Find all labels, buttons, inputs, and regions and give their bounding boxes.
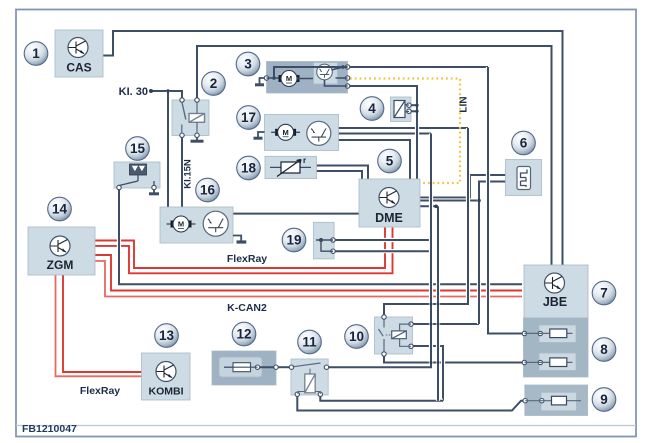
fuse 8a plate (539, 325, 576, 343)
pins connector19 (331, 238, 335, 242)
wire FlexRay ZGM-DME line 1 (95, 228, 385, 269)
wire box3 internal motor link (267, 67, 348, 79)
relay box 2 (172, 100, 209, 136)
svg-text:M: M (178, 220, 184, 229)
number ball 15 (126, 137, 150, 161)
wire LIN bus (350, 79, 460, 184)
wire CAS to JBE top outer (103, 31, 563, 265)
svg-text:9: 9 (600, 392, 608, 407)
node crossing dots trunk x438 (437, 303, 440, 306)
fuse carrier box 8 (524, 318, 589, 377)
wire box4 upper tap (409, 104, 417, 106)
motor M in box17 (271, 124, 300, 140)
relay 11 internals (293, 363, 321, 394)
node box3 internal top (272, 76, 276, 80)
number ball 6 (512, 131, 536, 155)
wire lead into fuse 8a (522, 332, 526, 334)
ground at box16 right (233, 236, 241, 242)
number ball 10 (345, 325, 369, 349)
KOMBI box (142, 353, 191, 400)
pins box3 (264, 76, 268, 80)
number ball 12 (232, 322, 256, 346)
wire box3 bottom trunk to DME top (348, 86, 417, 179)
pins fuse12 (255, 365, 259, 369)
module box 3 inner panel (314, 63, 338, 85)
number ball 14 (48, 197, 72, 221)
pins relay 2 (180, 98, 184, 102)
svg-text:K-CAN2: K-CAN2 (227, 302, 267, 314)
node W2 riser junction (477, 199, 481, 203)
svg-text:17: 17 (241, 110, 256, 125)
node box3 right junction (341, 65, 345, 69)
svg-text:KI. 30: KI. 30 (119, 86, 148, 98)
switch in box15 (119, 175, 154, 186)
svg-text:DME: DME (375, 211, 403, 225)
svg-text:14: 14 (52, 202, 68, 217)
relay box 10 (375, 317, 413, 354)
svg-text:10: 10 (349, 329, 364, 344)
ECU icon JBE (545, 273, 565, 293)
ECU icon CAS (68, 38, 88, 58)
switch box 15 (114, 162, 160, 188)
rheostat in box18 (270, 160, 311, 177)
wire relay11 bottom-left to fuse 9 (297, 395, 523, 411)
svg-text:1: 1 (32, 46, 40, 61)
svg-text:15: 15 (130, 141, 146, 156)
svg-text:FlexRay: FlexRay (80, 385, 120, 397)
connector triangles box15 (130, 164, 147, 175)
relay 2 internals (182, 102, 205, 134)
node box19 internal (319, 238, 323, 242)
wire trunk riser box6 lower (479, 182, 506, 325)
ground at box15 (153, 188, 155, 193)
wire FlexRay ZGM-KOMBI line 1 (56, 275, 142, 376)
pins fuse 9 (523, 399, 527, 403)
wire KI.15N relay2 to box16 (180, 136, 184, 208)
wire K-CAN2 line 2 (95, 261, 522, 297)
wire relay11 bottom-right run (320, 395, 443, 401)
wire DME W3 stub (418, 204, 438, 208)
ZGM box (28, 227, 95, 275)
wire box4 lower tap (409, 110, 417, 112)
wire trunk H2 riser to relay11 switch (327, 134, 432, 368)
fuse 9 plate (541, 392, 577, 411)
motor M in box16 (167, 216, 196, 232)
connector fork in box19 (316, 240, 333, 251)
wire DME W1 to box6 upper (418, 175, 506, 198)
number ball 5 (378, 149, 402, 173)
svg-text:12: 12 (236, 327, 251, 342)
wire trunk DME W3 down (436, 206, 440, 400)
svg-text:FB1210047: FB1210047 (22, 423, 77, 435)
ground at box3 left (260, 78, 267, 84)
number ball 19 (282, 228, 306, 252)
rheostat box 18 (265, 156, 317, 178)
throttle icon in box16 (203, 211, 228, 236)
wire box18 lower to DME top (317, 171, 363, 179)
svg-text:M: M (286, 74, 292, 83)
svg-text:KI.15N: KI.15N (183, 159, 194, 189)
number ball 4 (360, 97, 384, 121)
node KI.30 branch (166, 89, 170, 93)
wire fuse12 to relay11 (276, 365, 291, 369)
number ball 17 (237, 106, 261, 130)
number ball 11 (298, 330, 322, 354)
box name labels (47, 61, 568, 398)
pins relay11 (289, 365, 293, 369)
wire connector19 lower tap (334, 249, 431, 253)
number ball 1 (24, 42, 48, 66)
pins fuse 8b (522, 360, 526, 364)
wire lead into fuse 9 (522, 400, 527, 402)
wire K-CAN2 line 1 (95, 255, 522, 291)
relay box 11 (291, 359, 328, 395)
wire box3 top horizontal (274, 67, 488, 78)
svg-text:5: 5 (386, 154, 394, 169)
wire box16 to DME left (233, 212, 359, 216)
number ball 3 (236, 52, 260, 76)
node crossing dots trunk x431 (430, 303, 433, 306)
wire box18 upper to DME top (317, 166, 369, 180)
svg-text:6: 6 (520, 136, 528, 151)
node DME W3 corner (434, 205, 438, 209)
svg-text:3: 3 (244, 57, 252, 72)
relay 10 internals (379, 320, 412, 352)
wire lead into fuse 8b (522, 361, 526, 363)
DME box (359, 179, 420, 227)
CAS box U1 (55, 30, 103, 77)
svg-text:M: M (282, 128, 288, 137)
svg-text:ZGM: ZGM (47, 258, 74, 272)
connector box 19 (314, 222, 335, 259)
motor M in box3 (279, 71, 300, 87)
wire relay2 to JBE top inner (197, 46, 552, 265)
ground at relay 2 (196, 136, 198, 141)
ECU icon KOMBI (156, 362, 176, 382)
pins relay10 (382, 315, 386, 319)
wire KI.30 feed (151, 91, 182, 100)
wire box3 internal top run (274, 67, 348, 78)
sensor meander in box6 (517, 167, 531, 190)
svg-text:JBE: JBE (543, 295, 567, 309)
sensor box 4 (391, 97, 412, 122)
number ball 16 (196, 178, 220, 202)
svg-text:KOMBI: KOMBI (149, 386, 184, 398)
svg-text:4: 4 (368, 101, 376, 116)
valve icon in box17 (307, 121, 331, 145)
wire trunk H1 riser to relay10 top (384, 128, 468, 317)
number ball 18 (237, 156, 261, 180)
node box4 taps (415, 104, 418, 107)
wire box17 H1 horizontal (339, 126, 469, 130)
node KI.30 end dot (149, 89, 153, 93)
wire relay10 right lower to fuse 9 (411, 346, 443, 401)
svg-text:18: 18 (241, 161, 257, 176)
number ball 8 (592, 338, 616, 362)
svg-text:CAS: CAS (66, 61, 91, 75)
fuse 8b element (524, 358, 572, 367)
pins box4 (407, 103, 411, 107)
pins box15 (117, 185, 121, 189)
ECU icon ZGM (50, 236, 70, 256)
wire relay10 bottom to fuse 8b (384, 354, 523, 363)
svg-text:16: 16 (200, 183, 216, 198)
JBE box (524, 265, 588, 318)
fan icon in box3 (317, 64, 333, 80)
svg-text:r: r (303, 156, 306, 165)
svg-text:LIN: LIN (459, 96, 470, 112)
svg-text:19: 19 (286, 233, 301, 248)
ECU icon DME (379, 188, 399, 208)
wire box17 H2 horizontal (339, 131, 432, 135)
fuse 12 plate (219, 357, 262, 377)
fuse 9 element (525, 396, 581, 405)
wire box17 H3 to DME top (339, 140, 411, 179)
sensor box 6 (506, 160, 542, 196)
wire DME W2 horizontal (418, 198, 479, 202)
fuse in box12 (224, 363, 258, 372)
module box 3 outer (267, 62, 348, 94)
number ball 9 (592, 388, 616, 412)
throttle box 16 (160, 207, 233, 243)
svg-text:11: 11 (302, 335, 317, 350)
wire box3 lower link (325, 80, 348, 86)
fuse 8b plate (539, 353, 576, 371)
ground at box17 left (258, 132, 265, 137)
svg-text:FlexRay: FlexRay (227, 253, 267, 265)
sensor symbol box4 (394, 101, 409, 118)
fuse box 12 outer (212, 351, 276, 385)
wire relay10 right upper to riser (411, 322, 479, 326)
wire trunk box3 to fuse 8a (488, 67, 523, 334)
wire FlexRay ZGM-KOMBI line 2 (63, 275, 142, 372)
pins fuse 8a (522, 331, 526, 335)
wire FlexRay ZGM-DME line 2 (95, 228, 393, 274)
svg-text:7: 7 (600, 286, 608, 301)
wire connector19 top to DME bottom (333, 227, 430, 240)
number ball 7 (592, 281, 616, 305)
wire lead fuse12 to edge (258, 366, 277, 368)
wire KI.30 branch down to box16 (166, 91, 170, 207)
motor box 17 (265, 115, 339, 151)
svg-text:13: 13 (159, 328, 175, 343)
svg-text:8: 8 (600, 342, 608, 357)
footer divider line (16, 425, 636, 427)
svg-text:2: 2 (210, 76, 218, 91)
wire box15 to JBE left (119, 188, 522, 284)
fuse 8a element (524, 329, 572, 338)
fuse box 9 (525, 385, 588, 416)
number ball 2 (202, 72, 226, 96)
number ball 13 (155, 324, 179, 348)
